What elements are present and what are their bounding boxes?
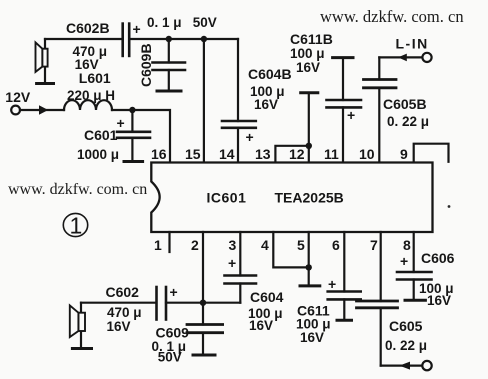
- svg-text:1000 μ: 1000 μ: [77, 147, 119, 162]
- svg-text:C605B: C605B: [383, 96, 427, 112]
- capacitor C609: [187, 325, 223, 356]
- speaker (top): [36, 42, 48, 72]
- capacitor C602B: [123, 24, 130, 56]
- svg-text:5: 5: [297, 237, 305, 253]
- speaker (top) lead wire: [44, 39, 46, 84]
- wire pin 13 hook to pin 12: [275, 146, 308, 163]
- svg-text:14: 14: [219, 146, 235, 162]
- ground (C609): [193, 354, 215, 357]
- svg-text:1: 1: [154, 237, 162, 253]
- symbol circled 1: [63, 213, 87, 236]
- svg-text:12: 12: [289, 146, 305, 162]
- svg-text:16V: 16V: [107, 319, 131, 334]
- svg-text:15: 15: [185, 146, 201, 162]
- node C (L601 / C601 junction): [129, 107, 135, 113]
- svg-text:IC601: IC601: [207, 190, 247, 206]
- svg-text:13: 13: [255, 146, 271, 162]
- capacitor C611: [328, 232, 361, 320]
- wire C605 to output terminal: [381, 365, 423, 367]
- capacitor C606: [397, 232, 432, 300]
- svg-text:0. 1 μ 50V: 0. 1 μ 50V: [147, 15, 217, 30]
- svg-text:220 μ H: 220 μ H: [67, 88, 115, 103]
- wire pin 9 hook: [414, 144, 449, 163]
- svg-text:+: +: [170, 284, 178, 300]
- capacitor C602: [157, 287, 167, 320]
- svg-text:100 μ: 100 μ: [290, 46, 325, 61]
- capacitor C601: [117, 110, 150, 162]
- svg-text:C606: C606: [421, 250, 455, 266]
- ground (C611): [337, 319, 352, 322]
- svg-text:C605: C605: [389, 318, 423, 334]
- wire inductor to pin 16 corner: [112, 110, 170, 163]
- svg-text:www. dzkfw. com. cn: www. dzkfw. com. cn: [8, 181, 147, 198]
- svg-text:C604: C604: [250, 289, 284, 305]
- node A (top rail / C609B junction): [166, 36, 172, 42]
- wire pin 12 to ground: [308, 93, 310, 163]
- svg-text:50V: 50V: [158, 350, 182, 365]
- terminal L-IN: [422, 53, 431, 62]
- svg-text:3: 3: [229, 237, 237, 253]
- capacitor C609B: [153, 39, 186, 91]
- wire pin 1 stub: [168, 232, 170, 252]
- wire pin 4 hook down: [273, 232, 308, 267]
- svg-text:+: +: [117, 115, 125, 131]
- capacitor C604: [225, 232, 257, 303]
- node B (top rail / pin 15 junction): [201, 36, 207, 42]
- svg-text:C602B: C602B: [66, 20, 110, 36]
- svg-text:C602: C602: [106, 284, 140, 300]
- ground (pin 5 net): [300, 284, 320, 287]
- speck (scan artifact): [448, 205, 451, 208]
- wire C604 bottom to node E: [203, 302, 240, 304]
- svg-text:16V: 16V: [427, 293, 451, 308]
- ground (C606): [405, 299, 425, 302]
- node F (pin 5 / hook junction): [306, 264, 312, 270]
- svg-text:C604B: C604B: [248, 66, 292, 82]
- inductor L601: [64, 100, 112, 110]
- capacitor C605B: [364, 57, 397, 162]
- speaker (bottom): [70, 305, 85, 337]
- svg-text:C601: C601: [84, 127, 118, 143]
- svg-text:0. 22 μ: 0. 22 μ: [385, 338, 427, 353]
- ground (C611B): [333, 56, 353, 59]
- svg-text:+: +: [228, 255, 236, 271]
- svg-text:9: 9: [400, 146, 408, 162]
- wire pin 5 to ground: [308, 232, 310, 286]
- svg-text:16V: 16V: [296, 60, 320, 75]
- svg-text:+: +: [400, 253, 408, 269]
- wire top rail from speaker to C602B: [45, 38, 121, 40]
- ground (top speaker): [37, 82, 54, 85]
- svg-text:L-IN: L-IN: [396, 36, 429, 52]
- wire speaker (bottom) to C602: [81, 302, 156, 304]
- svg-text:2: 2: [191, 237, 199, 253]
- svg-text:12V: 12V: [5, 89, 31, 105]
- svg-text:+: +: [328, 276, 336, 292]
- arrow on output wire: [399, 362, 410, 370]
- ground (bottom speaker): [72, 347, 91, 350]
- svg-text:16V: 16V: [300, 330, 324, 345]
- svg-text:C609B: C609B: [138, 43, 154, 87]
- svg-text:10: 10: [359, 146, 375, 162]
- ground (C601): [124, 160, 143, 163]
- svg-text:16V: 16V: [254, 97, 278, 112]
- wire C602 to node E: [166, 302, 203, 304]
- node E (pin2 / C602 / C604 / C609 junction): [200, 300, 206, 306]
- svg-text:L601: L601: [79, 70, 111, 86]
- svg-text:6: 6: [332, 237, 340, 253]
- capacitor C604B: [222, 39, 256, 163]
- svg-text:4: 4: [261, 237, 269, 253]
- wire 12V to inductor: [20, 109, 64, 111]
- wire L-IN to C605B: [379, 56, 422, 58]
- svg-text:www. dzkfw. com. cn: www. dzkfw. com. cn: [320, 7, 464, 26]
- IC601 TEA2025B body: [151, 163, 432, 233]
- svg-text:0. 22 μ: 0. 22 μ: [387, 114, 429, 129]
- wire pin 15 to top rail: [203, 39, 205, 163]
- svg-text:16V: 16V: [249, 318, 273, 333]
- wire pin 2 to node E: [202, 232, 204, 325]
- node D (pin 12 / hook junction): [306, 143, 312, 149]
- arrow on L-IN wire: [398, 54, 407, 62]
- wire top rail from C602B to corner above pin 14: [130, 38, 238, 40]
- terminal output (bottom right): [422, 361, 431, 370]
- svg-text:+: +: [347, 107, 355, 123]
- arrow on 12V wire: [39, 105, 48, 115]
- svg-text:TEA2025B: TEA2025B: [275, 190, 344, 206]
- svg-text:C611B: C611B: [290, 31, 333, 47]
- svg-text:+: +: [133, 21, 141, 37]
- svg-text:1: 1: [70, 213, 83, 239]
- svg-text:16: 16: [151, 146, 167, 162]
- svg-text:11: 11: [324, 146, 339, 162]
- terminal 12V: [11, 106, 20, 115]
- capacitor C605: [357, 232, 398, 366]
- svg-text:470 μ: 470 μ: [107, 305, 142, 320]
- ground (pin 12 net): [301, 91, 318, 94]
- svg-text:8: 8: [403, 237, 411, 253]
- svg-text:+: +: [246, 129, 254, 145]
- ground (C609B): [157, 90, 181, 93]
- speaker (bottom) lead wire: [80, 303, 82, 349]
- capacitor C611B: [327, 58, 362, 163]
- svg-text:7: 7: [370, 237, 378, 253]
